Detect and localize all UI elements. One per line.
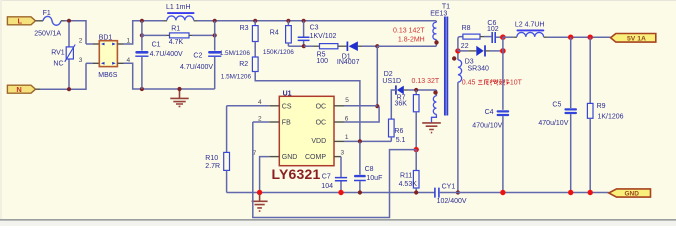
svg-text:2.7R: 2.7R bbox=[205, 163, 220, 170]
svg-text:1.8-2MH: 1.8-2MH bbox=[398, 37, 425, 44]
node GND junction bbox=[257, 190, 262, 195]
svg-text:GND: GND bbox=[625, 191, 640, 198]
node R11 rail bbox=[414, 190, 418, 194]
diode D1 IN4007 bbox=[337, 41, 362, 66]
svg-text:IN4007: IN4007 bbox=[337, 59, 360, 66]
node C7 rail bbox=[338, 190, 343, 195]
wire FB left bbox=[253, 121, 269, 123]
wire bridge pin3 bbox=[86, 62, 93, 64]
svg-text:1: 1 bbox=[345, 134, 349, 141]
svg-text:3: 3 bbox=[341, 149, 345, 156]
capacitor C5 bbox=[538, 37, 577, 192]
resistor R5 bbox=[316, 44, 338, 65]
inductor L2 bbox=[503, 21, 548, 37]
svg-text:0.13 32T: 0.13 32T bbox=[412, 78, 440, 85]
transformer T1 primary winding bbox=[433, 21, 436, 42]
node R1 right bbox=[213, 33, 217, 37]
node secondary bottom rail bbox=[456, 190, 460, 194]
node gnd rail junction bbox=[177, 87, 181, 91]
svg-text:R6: R6 bbox=[394, 128, 403, 135]
svg-text:R11: R11 bbox=[400, 172, 412, 179]
svg-text:C8: C8 bbox=[365, 166, 374, 173]
svg-text:CS: CS bbox=[282, 103, 292, 110]
ground (aux winding) bbox=[422, 123, 441, 133]
wire R3-R2 bbox=[254, 42, 256, 58]
capacitor C2 bbox=[180, 21, 221, 89]
node C8 rail bbox=[358, 190, 362, 194]
svg-text:CY1: CY1 bbox=[442, 183, 456, 190]
wire bridge pin2 bbox=[86, 43, 93, 45]
pin stub VDD bbox=[334, 140, 344, 142]
svg-text:1KV/102: 1KV/102 bbox=[310, 33, 337, 40]
node N-RV1 junction bbox=[67, 87, 71, 91]
node D3 cathode lower bbox=[500, 48, 506, 54]
capacitor C8 bbox=[354, 141, 382, 192]
node FB divider bbox=[414, 147, 419, 152]
svg-text:C2: C2 bbox=[193, 53, 202, 60]
wire drain vertical to OC bbox=[376, 46, 378, 106]
svg-text:10T: 10T bbox=[510, 79, 523, 86]
node C3 bottom junction bbox=[302, 44, 306, 48]
svg-text:4.7U/400V: 4.7U/400V bbox=[180, 64, 213, 71]
wire CS to R10 bbox=[227, 105, 270, 107]
fuse F1 bbox=[34, 10, 61, 38]
node R9 top bbox=[588, 35, 593, 40]
wire bridge pin1 to rail bbox=[117, 43, 123, 45]
svg-text:4: 4 bbox=[258, 99, 262, 106]
pin stub CS bbox=[269, 105, 279, 107]
primary polarity dot bbox=[434, 40, 438, 44]
wire D3 node vertical bbox=[502, 37, 504, 110]
wire FB loop bbox=[253, 122, 416, 218]
transformer T1 aux winding bbox=[432, 90, 437, 123]
ground (chip) bbox=[252, 194, 268, 211]
node C1 bottom bbox=[140, 87, 144, 91]
svg-text:COMP: COMP bbox=[305, 154, 326, 161]
aux polarity dot bbox=[433, 90, 437, 94]
svg-text:U1: U1 bbox=[283, 91, 292, 98]
op-amp U1 LY6321 body bbox=[279, 91, 334, 166]
resistor R10 bbox=[205, 106, 229, 193]
node R4 top bbox=[286, 19, 290, 23]
node R7 top bbox=[414, 88, 418, 92]
svg-text:F1: F1 bbox=[43, 10, 51, 17]
svg-text:L2 4.7UH: L2 4.7UH bbox=[515, 21, 545, 28]
wire drain node to primary bottom bbox=[377, 42, 436, 46]
svg-text:3: 3 bbox=[79, 57, 83, 64]
svg-text:5.1: 5.1 bbox=[396, 137, 406, 144]
resistor R9 bbox=[587, 37, 623, 192]
svg-text:2: 2 bbox=[79, 38, 83, 45]
svg-text:22: 22 bbox=[461, 43, 469, 50]
diode D3 SR340 bbox=[458, 45, 503, 72]
svg-text:104: 104 bbox=[321, 183, 333, 190]
svg-text:C5: C5 bbox=[552, 102, 561, 109]
resistor R1 bbox=[167, 25, 193, 45]
node R9 rail bbox=[588, 190, 593, 195]
svg-text:VDD: VDD bbox=[311, 138, 326, 145]
capacitor C4 bbox=[472, 109, 509, 193]
bridge BD1 MB6S bbox=[98, 34, 117, 79]
svg-text:4.7U/400V: 4.7U/400V bbox=[150, 51, 183, 58]
svg-text:C1: C1 bbox=[152, 41, 161, 48]
wire VDD row bbox=[344, 140, 391, 142]
secondary polarity dot bbox=[452, 56, 456, 60]
svg-text:102: 102 bbox=[487, 26, 499, 33]
svg-text:D3: D3 bbox=[465, 58, 474, 65]
wire fuse-to-corner bbox=[61, 20, 65, 22]
transformer T1 secondary winding bbox=[458, 51, 462, 193]
pin stub GND bbox=[269, 156, 279, 158]
svg-text:5V 1A: 5V 1A bbox=[627, 35, 646, 42]
svg-text:102/400V: 102/400V bbox=[437, 198, 467, 205]
ground (primary bulk) bbox=[170, 89, 188, 106]
svg-text:R10: R10 bbox=[205, 155, 218, 162]
wire OC5 to drain bbox=[344, 105, 377, 107]
port L bbox=[7, 17, 35, 26]
hanzi ceng bbox=[484, 80, 489, 85]
svg-text:10uF: 10uF bbox=[366, 175, 382, 182]
node C4 rail bbox=[500, 190, 505, 195]
node L-RV1 junction bbox=[67, 19, 71, 23]
wire D1 to drain node bbox=[362, 45, 377, 47]
resistor R3 bbox=[220, 21, 258, 57]
svg-text:R8: R8 bbox=[462, 25, 471, 32]
svg-text:4.7K: 4.7K bbox=[169, 39, 184, 46]
svg-text:C7: C7 bbox=[322, 173, 331, 180]
port GND bbox=[609, 189, 651, 198]
resistor R2 bbox=[221, 57, 258, 80]
capacitor C3 bbox=[298, 21, 337, 46]
svg-text:D2: D2 bbox=[384, 71, 393, 78]
svg-text:1.5M/1206: 1.5M/1206 bbox=[221, 73, 252, 80]
node R3 top bbox=[253, 19, 257, 23]
wire startup R2 to VDD node bbox=[255, 72, 360, 142]
wire output rail bbox=[547, 36, 610, 38]
wire C3-R5 bbox=[304, 45, 314, 47]
svg-text:SR340: SR340 bbox=[468, 65, 490, 72]
svg-text:R4: R4 bbox=[270, 29, 279, 36]
svg-text:N: N bbox=[16, 85, 21, 94]
svg-text:C4: C4 bbox=[485, 109, 494, 116]
pin stub COMP bbox=[334, 156, 341, 158]
svg-text:5: 5 bbox=[345, 97, 349, 104]
wire L-to-fuse bbox=[36, 20, 44, 22]
svg-text:R2: R2 bbox=[239, 61, 248, 68]
svg-text:BD1: BD1 bbox=[99, 34, 113, 41]
wire snubber row R4-C3 bbox=[288, 45, 304, 47]
svg-text:4.53K: 4.53K bbox=[399, 181, 418, 188]
hanzi san bbox=[478, 80, 483, 84]
varistor RV1 bbox=[51, 22, 75, 88]
resistor R8 bbox=[458, 25, 484, 51]
port 5V 1A bbox=[611, 34, 656, 43]
port N bbox=[7, 85, 35, 94]
svg-text:100: 100 bbox=[316, 58, 328, 65]
svg-text:470u/10V: 470u/10V bbox=[538, 120, 568, 127]
node D3 cathode upper bbox=[500, 34, 506, 40]
svg-text:OC: OC bbox=[316, 120, 327, 127]
node C1 top bbox=[140, 19, 144, 23]
svg-text:US1D: US1D bbox=[382, 78, 401, 85]
resistor R11 bbox=[399, 150, 419, 193]
wire N-row bbox=[36, 88, 41, 90]
svg-text:L1 1mH: L1 1mH bbox=[166, 4, 191, 11]
svg-text:NC: NC bbox=[53, 60, 63, 67]
diode D2 US1D bbox=[382, 71, 408, 119]
node C3 top bbox=[302, 19, 306, 23]
svg-text:36K: 36K bbox=[395, 100, 408, 107]
node C2 top bbox=[213, 19, 217, 23]
svg-text:150K/1206: 150K/1206 bbox=[263, 49, 294, 56]
node secondary top junction bbox=[455, 48, 460, 53]
capacitor C6 bbox=[484, 20, 503, 43]
wire primary gnd rail bbox=[227, 192, 435, 194]
wire R1 row right bbox=[192, 34, 215, 36]
node OC pin5 junction bbox=[375, 104, 379, 108]
svg-text:FB: FB bbox=[282, 120, 291, 127]
svg-text:1K/1206: 1K/1206 bbox=[598, 114, 624, 121]
capacitor C1 bbox=[135, 21, 183, 89]
transformer T1 core bbox=[445, 17, 447, 116]
node VDD-C8-startup bbox=[358, 139, 362, 143]
wire GND pin7 bbox=[260, 157, 270, 193]
svg-text:250V/1A: 250V/1A bbox=[34, 31, 61, 38]
node drain-snubber junction bbox=[375, 44, 379, 48]
capacitor CY1 bbox=[435, 183, 467, 205]
svg-text:R1: R1 bbox=[171, 25, 180, 32]
svg-text:1.5M/1206: 1.5M/1206 bbox=[220, 50, 251, 57]
svg-text:GND: GND bbox=[282, 154, 298, 161]
svg-text:T1: T1 bbox=[442, 3, 450, 10]
node R1 left bbox=[140, 33, 144, 37]
wire D2 anode to aux bbox=[408, 89, 436, 91]
svg-text:0.13 142T: 0.13 142T bbox=[393, 28, 425, 35]
svg-text:0.45: 0.45 bbox=[462, 79, 476, 86]
capacitor C7 bbox=[321, 157, 347, 193]
svg-text:OC: OC bbox=[316, 103, 327, 110]
pin stub OC5 bbox=[334, 105, 344, 107]
resistor R4 bbox=[263, 21, 294, 56]
svg-text:R9: R9 bbox=[597, 103, 606, 110]
resistor R7 bbox=[395, 90, 420, 150]
svg-text:MB6S: MB6S bbox=[98, 72, 117, 79]
svg-text:470u/10V: 470u/10V bbox=[472, 123, 502, 130]
inductor L1 bbox=[164, 4, 198, 21]
hanzi xian bbox=[503, 79, 509, 85]
wire R1 row left bbox=[142, 34, 167, 36]
svg-text:R3: R3 bbox=[240, 25, 249, 32]
node C5 rail bbox=[568, 190, 573, 195]
svg-text:LY6321: LY6321 bbox=[272, 166, 321, 182]
pin stub OC6 bbox=[334, 121, 344, 123]
svg-text:C3: C3 bbox=[310, 25, 319, 32]
svg-text:L: L bbox=[18, 17, 23, 26]
svg-text:EE13: EE13 bbox=[430, 11, 447, 18]
node C5 top bbox=[568, 35, 573, 40]
hanzi yuan bbox=[497, 79, 502, 84]
hanzi jue bbox=[490, 79, 496, 84]
pin stub FB bbox=[269, 121, 279, 123]
wire top rail (L1 to transformer) bbox=[198, 20, 437, 22]
wire bridge pin4 to gnd rail bbox=[117, 62, 123, 64]
wire secondary gnd rail bbox=[440, 192, 609, 194]
svg-text:RV1: RV1 bbox=[51, 49, 65, 56]
wire OC6 riser bbox=[344, 107, 379, 122]
resistor R6 bbox=[389, 119, 406, 144]
